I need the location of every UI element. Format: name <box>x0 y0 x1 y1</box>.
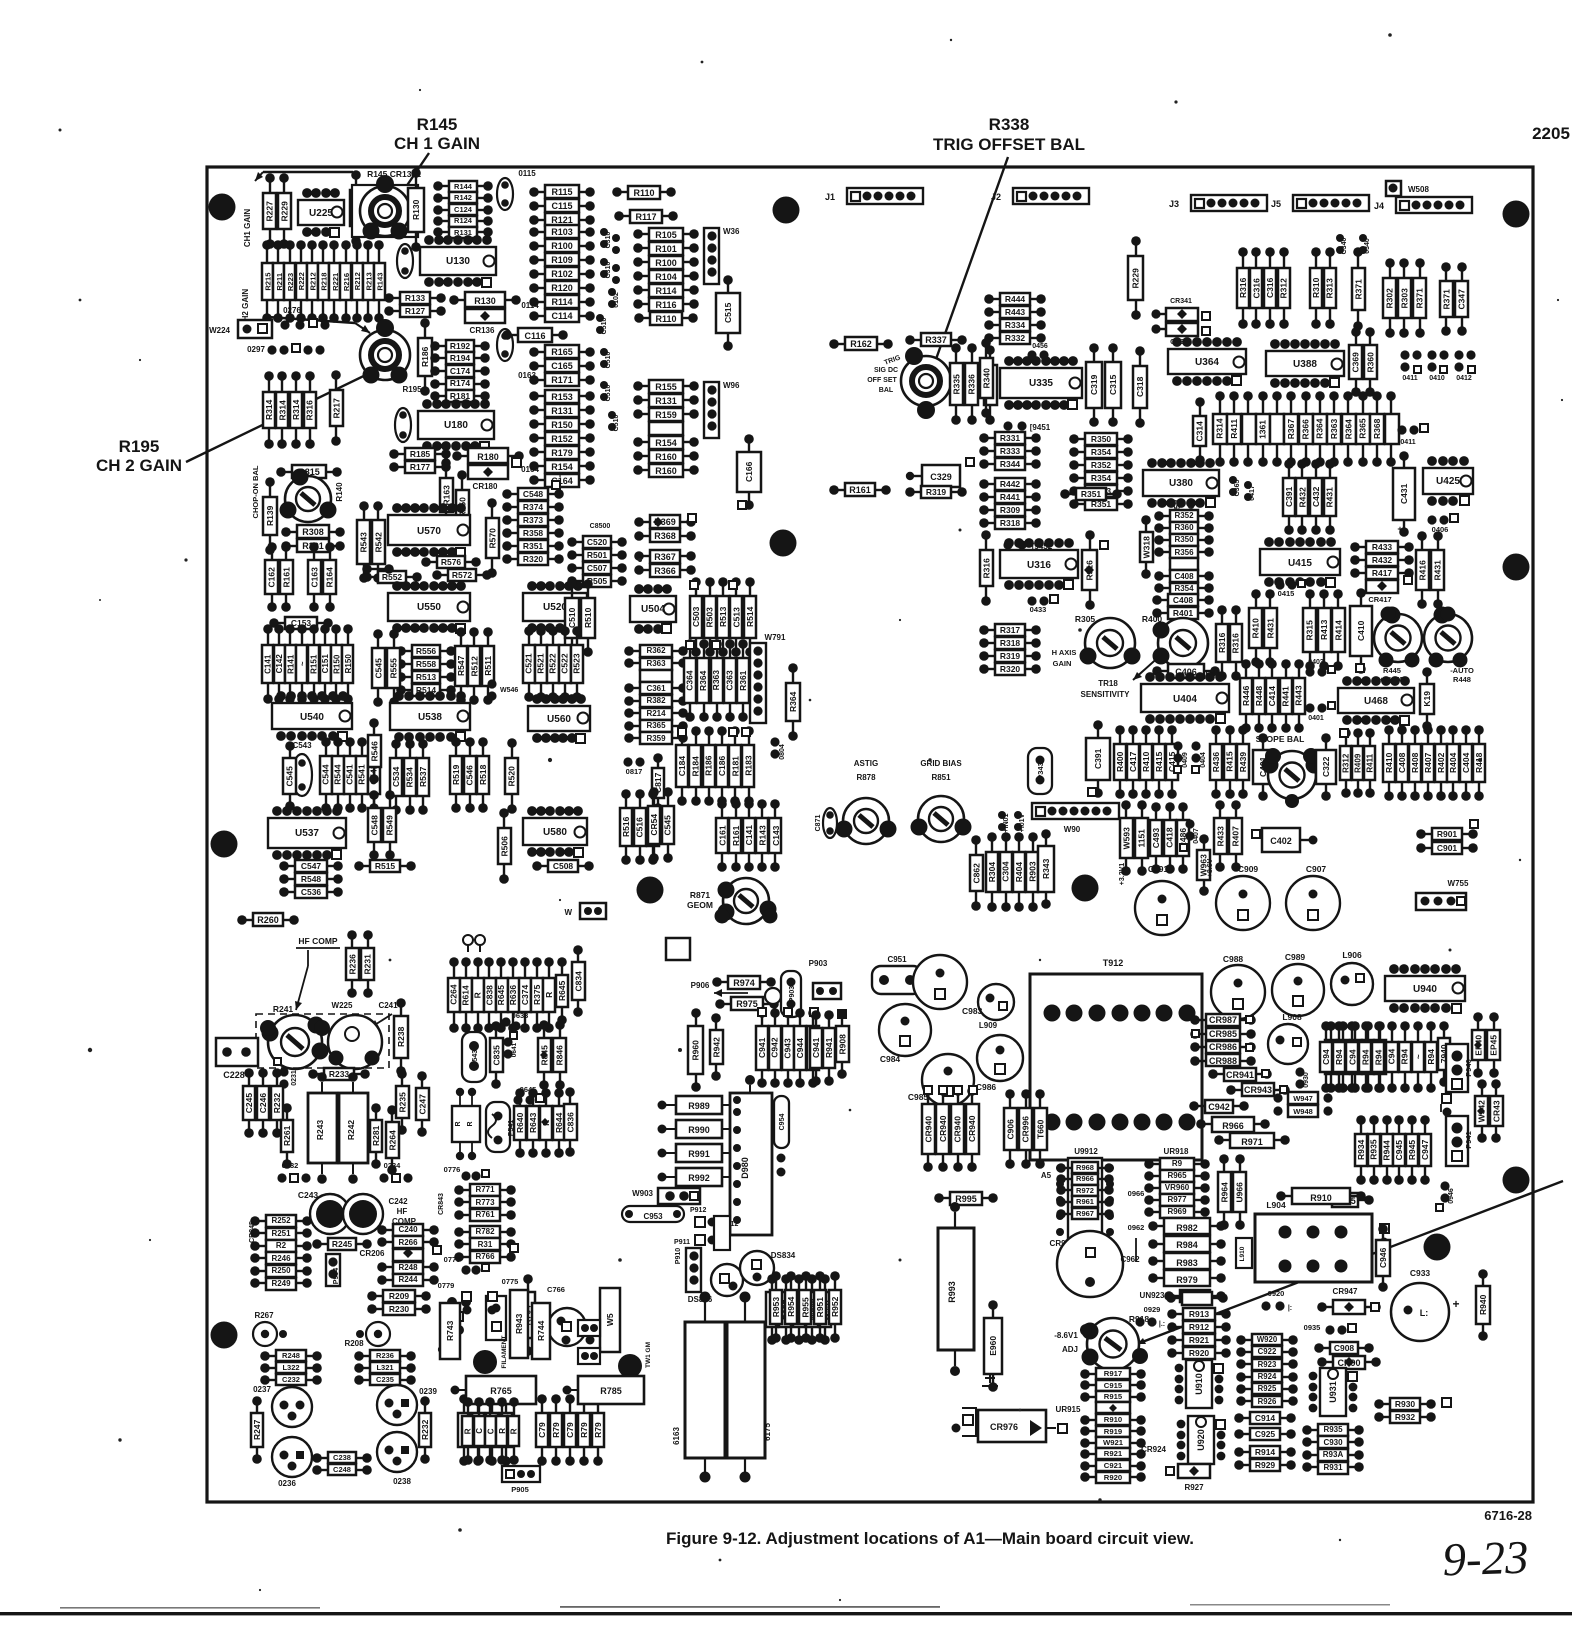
svg-text:R364: R364 <box>788 691 798 712</box>
svg-text:R356: R356 <box>1174 548 1194 557</box>
svg-text:R248: R248 <box>282 1351 300 1360</box>
resistor group R165 C1 R171 <box>529 345 595 386</box>
svg-text:P941: P941 <box>1464 1131 1473 1149</box>
svg-text:R992: R992 <box>688 1173 710 1183</box>
capacitor C247 <box>416 1071 429 1137</box>
capacitor C907 <box>1286 864 1340 930</box>
dashed group box <box>256 1014 389 1068</box>
capacitor C314 <box>1193 397 1206 465</box>
pads 0804 <box>770 737 786 759</box>
resistor R552b <box>362 564 394 574</box>
svg-text:W318: W318 <box>1141 536 1151 558</box>
capacitor C508 <box>532 860 594 872</box>
resistor trio C493 <box>1150 802 1189 874</box>
svg-text:U364: U364 <box>1195 357 1219 368</box>
svg-text:U920: U920 <box>1196 1429 1206 1451</box>
svg-text:R155: R155 <box>655 382 677 392</box>
resistor R567 R566 <box>634 550 696 577</box>
svg-text:1361: 1361 <box>1257 420 1267 439</box>
svg-text:R331: R331 <box>1000 433 1021 443</box>
svg-text:0164: 0164 <box>521 465 539 474</box>
pad group 0411 <box>1400 350 1421 382</box>
label 0966 0962 <box>1128 1189 1145 1262</box>
resistor R974 <box>712 976 776 989</box>
svg-text:R991: R991 <box>688 1149 710 1159</box>
arrow to R195 <box>268 317 370 333</box>
IC U537 <box>268 806 346 860</box>
capacitor C166 <box>737 434 761 510</box>
svg-text:R481: R481 <box>1205 669 1225 678</box>
resistor pair CR545 <box>648 787 674 863</box>
svg-text:C507: C507 <box>587 563 608 573</box>
svg-text:C8500: C8500 <box>590 523 611 530</box>
svg-text:GRID BIAS: GRID BIAS <box>920 759 962 768</box>
svg-text:R851: R851 <box>931 773 951 782</box>
resistor R308 R391 <box>281 525 345 552</box>
resistor group R103-C114 <box>529 225 595 322</box>
svg-text:R418: R418 <box>1474 752 1484 773</box>
resistor pair left of R556 <box>372 629 400 707</box>
svg-text:C925: C925 <box>1255 1429 1276 1439</box>
svg-text:R160: R160 <box>655 466 677 476</box>
svg-text:C534: C534 <box>391 766 401 787</box>
svg-text:C546: C546 <box>464 765 474 786</box>
svg-text:R368: R368 <box>1372 418 1382 439</box>
arrow to CH1 GAIN label <box>255 172 353 181</box>
svg-text:C: C <box>475 1428 484 1434</box>
svg-text:U540: U540 <box>300 712 324 723</box>
svg-text:CR417: CR417 <box>1368 595 1391 604</box>
svg-text:R215: R215 <box>264 272 273 291</box>
svg-text:R920: R920 <box>1104 1473 1122 1482</box>
svg-text:R114: R114 <box>551 297 572 307</box>
svg-text:R640: R640 <box>515 1112 525 1133</box>
svg-text:R503: R503 <box>704 607 714 628</box>
pad dark f2 <box>618 1354 642 1378</box>
capacitor C175 <box>497 329 513 361</box>
svg-text:R375: R375 <box>532 984 542 1005</box>
svg-text:R954: R954 <box>786 1296 796 1317</box>
svg-text:R354: R354 <box>1174 584 1194 593</box>
svg-text:DS834: DS834 <box>771 1251 796 1260</box>
svg-text:R785: R785 <box>600 1386 622 1396</box>
svg-text:R404: R404 <box>1448 752 1458 773</box>
svg-text:R320: R320 <box>1000 664 1021 674</box>
resistor R133 R127 <box>384 292 446 317</box>
IC U225 <box>298 188 344 237</box>
svg-text:C232: C232 <box>282 1375 300 1384</box>
svg-text:R961: R961 <box>1076 1197 1094 1206</box>
svg-text:R305: R305 <box>1075 614 1096 624</box>
svg-text:R143: R143 <box>376 273 385 291</box>
svg-text:W36: W36 <box>723 227 740 236</box>
capacitor C116 <box>502 328 568 342</box>
svg-text:R519: R519 <box>451 764 461 785</box>
pad R267 <box>253 1311 287 1346</box>
svg-text:C391: C391 <box>1284 486 1294 507</box>
resistor R785 <box>563 1376 645 1404</box>
svg-text:GAIN: GAIN <box>1053 659 1072 668</box>
diode box CR924 <box>1166 1464 1210 1492</box>
svg-text:P543: P543 <box>472 1050 479 1066</box>
capacitor CR15 <box>276 465 342 478</box>
label 0163 <box>518 371 536 380</box>
svg-text:R359: R359 <box>646 734 666 743</box>
svg-text:R164: R164 <box>324 567 334 588</box>
resistor R764 <box>520 1274 535 1356</box>
svg-text:R230: R230 <box>389 1304 410 1314</box>
svg-text:R901: R901 <box>1437 829 1458 839</box>
svg-text:R93A: R93A <box>1323 1450 1344 1459</box>
svg-text:R761: R761 <box>475 1210 495 1219</box>
svg-text:UR918: UR918 <box>1164 1147 1189 1156</box>
svg-text:R558: R558 <box>416 659 437 669</box>
capacitor C834 <box>572 945 585 1017</box>
svg-text:R221: R221 <box>331 272 340 291</box>
resistor group R153 R131 R150 <box>529 390 595 487</box>
svg-text:0775: 0775 <box>444 1255 461 1264</box>
svg-text:R154: R154 <box>655 438 677 448</box>
svg-text:C248: C248 <box>333 1465 351 1474</box>
svg-text:U570: U570 <box>417 526 441 537</box>
svg-text:C417: C417 <box>1128 751 1138 772</box>
svg-text:CR136: CR136 <box>470 326 495 335</box>
svg-text:R993: R993 <box>947 1281 957 1303</box>
svg-text:R969: R969 <box>1167 1207 1187 1216</box>
svg-text:R548: R548 <box>301 874 322 884</box>
svg-text:R94: R94 <box>1400 1049 1410 1065</box>
mounting hole <box>211 1322 238 1349</box>
svg-text:C991: C991 <box>1148 864 1169 874</box>
resistor R343t <box>1038 829 1054 909</box>
svg-text:R431: R431 <box>1265 618 1275 639</box>
svg-text:R518: R518 <box>478 764 488 785</box>
resistor R910 <box>1276 1188 1366 1204</box>
svg-text:0775: 0775 <box>502 1277 519 1286</box>
svg-text:U966: U966 <box>1234 1182 1244 1203</box>
diode W942 CR43 <box>1475 1079 1503 1143</box>
trimpot arrow target pads <box>1080 1324 1092 1336</box>
label SLOPE BAL <box>1205 669 1304 744</box>
svg-text:R636: R636 <box>508 985 518 1006</box>
svg-text:R335: R335 <box>951 374 961 395</box>
svg-text:R368: R368 <box>654 531 676 541</box>
diode R316d <box>1082 530 1108 610</box>
svg-text:C838: C838 <box>484 985 494 1006</box>
svg-text:R972: R972 <box>1076 1186 1094 1195</box>
svg-text:0930: 0930 <box>1303 1072 1310 1088</box>
svg-text:R261: R261 <box>282 1125 292 1146</box>
svg-text:+8.6V: +8.6V <box>1207 858 1214 877</box>
svg-text:R979: R979 <box>1176 1275 1198 1285</box>
svg-text:T912: T912 <box>1103 958 1124 968</box>
svg-text:U560: U560 <box>547 714 571 725</box>
svg-text:R194: R194 <box>450 353 471 363</box>
svg-text:C94: C94 <box>1321 1049 1331 1065</box>
svg-text:R150: R150 <box>344 654 353 674</box>
svg-text:R242: R242 <box>346 1120 356 1141</box>
svg-text:U931: U931 <box>1328 1381 1338 1403</box>
capacitor C925 <box>1234 1428 1296 1440</box>
svg-text:C520: C520 <box>587 537 608 547</box>
svg-text:R910: R910 <box>1310 1193 1332 1203</box>
svg-text:R235: R235 <box>397 1092 407 1113</box>
svg-text:0946: 0946 <box>1448 1188 1455 1204</box>
capacitor C240 <box>350 170 363 246</box>
pads pair f2 <box>562 1322 596 1345</box>
svg-text:C871: C871 <box>815 815 822 832</box>
svg-text:C548: C548 <box>523 489 544 499</box>
svg-text:R373: R373 <box>523 515 544 525</box>
resistor R117 <box>614 210 678 223</box>
svg-text:R744: R744 <box>536 1320 546 1341</box>
svg-text:R547: R547 <box>456 655 466 676</box>
svg-text:U538: U538 <box>418 712 442 723</box>
svg-text:C962: C962 <box>1120 1255 1140 1264</box>
resistor R340 <box>980 338 993 418</box>
svg-text:FILAMENT: FILAMENT <box>501 1336 508 1369</box>
pads 0775 <box>444 1255 489 1275</box>
svg-text:R304: R304 <box>987 862 997 883</box>
svg-text:C391: C391 <box>1093 748 1103 769</box>
svg-text:U9912: U9912 <box>1074 1147 1098 1156</box>
svg-text:R968: R968 <box>1076 1163 1094 1172</box>
svg-text:R942: R942 <box>711 1037 721 1058</box>
arrow TRIG SENSITIVITY <box>1081 654 1162 699</box>
svg-text:R312: R312 <box>1278 278 1288 299</box>
resistor R743 tall <box>440 1303 460 1359</box>
svg-text:R432: R432 <box>1297 487 1307 508</box>
svg-text:R94: R94 <box>1360 1049 1370 1065</box>
capacitor C369 R369 <box>1349 327 1377 397</box>
resistor R260 <box>237 913 299 926</box>
resistor R229 <box>278 173 291 249</box>
svg-text:R433: R433 <box>1372 542 1393 552</box>
callout R338 TRIG OFFSET BAL <box>929 115 1085 376</box>
svg-text:C79: C79 <box>537 1422 547 1438</box>
svg-text:R318: R318 <box>1000 638 1021 648</box>
mounting hole <box>1503 201 1530 228</box>
resistor group R105-R116 <box>633 228 699 311</box>
capacitor stack C548 <box>502 470 564 565</box>
svg-text:R142: R142 <box>454 193 472 202</box>
pads 0232 <box>277 1161 310 1183</box>
svg-text:R918: R918 <box>1129 1314 1150 1324</box>
svg-text:C322: C322 <box>1321 756 1331 777</box>
svg-text:R309: R309 <box>1000 505 1021 515</box>
label R145 CR1341 <box>367 169 421 179</box>
svg-text:R223: R223 <box>286 273 295 291</box>
IC U920 <box>1177 1416 1226 1464</box>
svg-text:C162: C162 <box>266 567 276 588</box>
transistor DS834 <box>740 1251 796 1285</box>
transistor DS836 <box>688 1264 743 1304</box>
svg-text:0237: 0237 <box>253 1385 271 1394</box>
svg-text:W225: W225 <box>332 1001 353 1010</box>
svg-text:R245: R245 <box>332 1239 353 1249</box>
svg-text:R340: R340 <box>981 368 991 389</box>
IC U520 <box>523 581 587 633</box>
IC U570 <box>388 503 470 557</box>
label 0276 <box>283 306 301 315</box>
svg-text:P912: P912 <box>690 1207 706 1214</box>
svg-text:W546: W546 <box>500 687 518 694</box>
svg-text:R367: R367 <box>1286 419 1296 440</box>
svg-text:CR976: CR976 <box>990 1422 1018 1432</box>
svg-text:R953: R953 <box>771 1297 781 1318</box>
svg-text:R614: R614 <box>460 985 470 1006</box>
svg-text:U415: U415 <box>1288 558 1312 569</box>
resistor stack UR918 <box>1144 1147 1210 1218</box>
svg-text:0935: 0935 <box>1304 1323 1321 1332</box>
resistor trio R782 <box>454 1226 518 1263</box>
svg-text:C329: C329 <box>930 472 952 482</box>
svg-text:P903: P903 <box>809 959 828 968</box>
svg-text:R966: R966 <box>1222 1121 1244 1131</box>
svg-text:C116: C116 <box>524 331 545 341</box>
svg-text:R159: R159 <box>655 410 677 420</box>
mounting hole <box>773 197 800 224</box>
svg-text:P905: P905 <box>511 1485 529 1494</box>
capacitor C836 <box>564 1087 577 1157</box>
resistor row U520 bottom <box>523 626 583 702</box>
diode group CR987 <box>1190 1014 1256 1066</box>
svg-text:R365: R365 <box>646 721 666 730</box>
svg-text:TR18: TR18 <box>1098 679 1118 688</box>
resistor group CH2 attenuator <box>262 240 385 323</box>
resistor R335 R336 <box>950 343 978 425</box>
svg-text:CR996: CR996 <box>1020 1116 1030 1143</box>
svg-text:CR988: CR988 <box>1209 1056 1237 1066</box>
svg-text:+AUTO: +AUTO <box>1379 675 1405 684</box>
svg-text:R124: R124 <box>454 216 473 225</box>
svg-text:R914: R914 <box>1255 1447 1276 1457</box>
svg-text:U225: U225 <box>309 208 333 219</box>
svg-text:R351: R351 <box>523 541 544 551</box>
svg-text:R94: R94 <box>1373 1049 1383 1065</box>
inductor L906 <box>1331 950 1373 1005</box>
resistor trio R436 <box>1210 725 1249 799</box>
resistor R185 R177 <box>389 448 451 473</box>
svg-text:R316: R316 <box>1238 277 1248 298</box>
resistor R845 R846 <box>538 1020 566 1090</box>
svg-text:C942: C942 <box>1208 1102 1230 1112</box>
IC U931 <box>1309 1368 1358 1416</box>
capacitor C510 R510 <box>565 579 595 657</box>
svg-text:C545: C545 <box>284 766 294 787</box>
capacitor C909 <box>1216 864 1270 930</box>
svg-text:C906: C906 <box>1005 1119 1015 1140</box>
svg-text:6175: 6175 <box>763 1423 772 1441</box>
inductor L904 <box>1255 1200 1389 1282</box>
svg-text:CR986: CR986 <box>1209 1042 1237 1052</box>
label 0115 <box>518 169 536 178</box>
svg-text:R927: R927 <box>1184 1483 1204 1492</box>
svg-text:R915: R915 <box>1104 1392 1123 1401</box>
svg-text:C988: C988 <box>1223 954 1244 964</box>
resistor R942 <box>710 1013 723 1081</box>
svg-text:R407: R407 <box>1423 752 1433 773</box>
svg-text:R644: R644 <box>554 1112 564 1133</box>
svg-text:P343: P343 <box>1036 762 1045 780</box>
svg-text:R920: R920 <box>1189 1348 1210 1358</box>
resistor quad R640 <box>514 1088 565 1158</box>
svg-text:C922: C922 <box>1258 1347 1277 1356</box>
resistor R186 <box>418 318 432 396</box>
diode EP40 EP45 <box>1472 1012 1500 1078</box>
svg-text:R520: R520 <box>506 766 516 787</box>
svg-text:J1: J1 <box>825 192 835 202</box>
svg-text:R: R <box>509 1428 518 1434</box>
svg-text:C264: C264 <box>449 984 459 1005</box>
svg-text:C909: C909 <box>1238 864 1259 874</box>
svg-text:J2: J2 <box>991 192 1001 202</box>
svg-text:C310: C310 <box>605 262 612 279</box>
resistor trio right1 <box>0 0 1 1</box>
svg-text:R212: R212 <box>308 272 317 290</box>
svg-text:R944: R944 <box>1381 1140 1391 1161</box>
label CHOP-ON BAL <box>251 465 260 518</box>
connector J5 <box>1271 195 1369 211</box>
svg-text:R984: R984 <box>1176 1240 1198 1250</box>
svg-text:TRIG: TRIG <box>883 354 902 366</box>
IC U468 <box>1338 676 1414 725</box>
svg-text:0962: 0962 <box>1128 1223 1145 1232</box>
connector P541 <box>486 1102 515 1152</box>
IC U404 <box>1141 672 1229 724</box>
pads 0946 <box>1436 1181 1455 1211</box>
resistor R163 R173 pair <box>440 458 469 544</box>
svg-text:R233: R233 <box>329 1069 350 1079</box>
svg-text:R556: R556 <box>416 646 437 656</box>
svg-text:C862: C862 <box>971 863 981 884</box>
svg-text:R960: R960 <box>690 1040 700 1061</box>
svg-text:R912: R912 <box>1189 1322 1210 1332</box>
svg-text:R966: R966 <box>1076 1174 1094 1183</box>
resistor cluster R310 <box>1310 247 1336 329</box>
svg-text:R445: R445 <box>1383 666 1401 675</box>
svg-text:R365: R365 <box>1358 418 1368 439</box>
resistor R570 <box>486 498 499 578</box>
svg-text:R951: R951 <box>815 1297 825 1318</box>
svg-text:E960: E960 <box>988 1336 998 1356</box>
pads 0415 <box>1275 580 1305 598</box>
capacitor C953 <box>622 1206 706 1222</box>
resistor row bottom center <box>770 1271 841 1343</box>
resistor group R350-R351 <box>1069 433 1133 510</box>
jumper W96 <box>704 381 740 438</box>
svg-text:R360: R360 <box>1365 352 1375 373</box>
diode CR976 <box>978 1410 1067 1442</box>
svg-text:C946: C946 <box>1378 1247 1388 1268</box>
svg-text:R934: R934 <box>1356 1139 1366 1160</box>
svg-text:R576: R576 <box>441 557 462 567</box>
svg-text:R260: R260 <box>257 915 279 925</box>
svg-text:R350: R350 <box>1091 434 1112 444</box>
svg-text:R162: R162 <box>850 339 872 349</box>
diode CR341 CR342 <box>1151 298 1210 346</box>
resistor R964 pair <box>1218 1154 1246 1230</box>
svg-text:W: W <box>564 908 572 917</box>
svg-text:R352: R352 <box>1174 511 1194 520</box>
pads 0817 <box>623 753 664 813</box>
svg-text:R924: R924 <box>1258 1372 1277 1381</box>
svg-text:R363: R363 <box>646 659 666 668</box>
svg-text:C315: C315 <box>1108 374 1118 395</box>
svg-text:R314: R314 <box>264 399 274 420</box>
svg-text:R923: R923 <box>1258 1360 1277 1369</box>
svg-text:Figure 9-12. Adjustment locati: Figure 9-12. Adjustment locations of A1—… <box>666 1529 1194 1548</box>
